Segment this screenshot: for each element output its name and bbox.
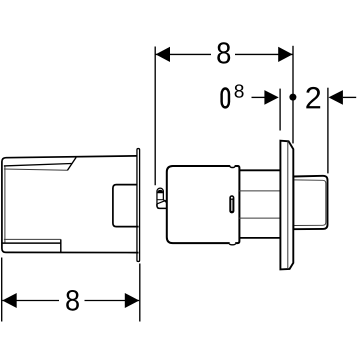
dimension 2: leader stub right xyxy=(343,96,356,98)
dimension bottom 8: dimension line right segment xyxy=(85,300,140,302)
wall flange inner edge line xyxy=(287,141,289,269)
wall flange plate xyxy=(280,141,293,270)
actuator clip capsule xyxy=(157,188,163,206)
actuator clip diagonal xyxy=(157,200,166,204)
shaft bottom line xyxy=(239,237,281,239)
dimension 0.8: leader stub xyxy=(252,96,266,98)
housing bottom seam thin line xyxy=(4,238,61,240)
dimension bottom 8: label 8 xyxy=(66,290,79,311)
actuator clip box line xyxy=(157,199,163,201)
dimension bottom 8: left arrowhead xyxy=(2,293,16,308)
housing lid seam upper line xyxy=(4,164,72,166)
housing outer outline xyxy=(2,156,139,253)
housing flange bar xyxy=(137,149,140,262)
dimension chain dot xyxy=(289,94,296,101)
shaft inner line upper xyxy=(239,190,281,192)
spigot xyxy=(293,176,327,229)
dimension top 8: right arrowhead xyxy=(278,47,292,62)
actuator clip step to body xyxy=(163,200,166,203)
dimension bottom 8: right arrowhead xyxy=(125,293,139,308)
actuator slot inner dot xyxy=(231,197,233,199)
actuator body top notch xyxy=(230,164,236,167)
spigot inner line xyxy=(294,180,326,226)
dimension top 8: extension line right (long, through dot) xyxy=(292,46,294,144)
dimension 0.8: superscript 8 xyxy=(235,84,244,97)
actuator body bottom notch xyxy=(230,242,236,245)
dimension 2: arrowhead pointing left xyxy=(329,90,343,105)
dimension top 8: dimension line left segment xyxy=(155,53,211,55)
actuator clip bottom hook xyxy=(157,204,166,208)
housing lid corner diagonal xyxy=(67,157,76,170)
housing lid seam lower line xyxy=(4,169,68,170)
actuator clip dark cap xyxy=(157,190,163,194)
dimension top 8: left arrowhead xyxy=(156,47,170,62)
actuator body xyxy=(167,166,240,243)
actuator slot inner slit xyxy=(231,200,233,211)
shaft top line xyxy=(239,169,281,171)
actuator slot on right edge xyxy=(229,195,234,213)
shaft inner line lower xyxy=(239,217,281,219)
dimension bottom 8: extension line right xyxy=(139,264,141,322)
housing inner left edge line xyxy=(4,167,6,244)
dimension 0.8: extension line xyxy=(279,89,281,131)
housing bottom seam step xyxy=(60,239,62,252)
dimension top 8: extension line left xyxy=(154,47,156,186)
dimension 2: label 2 xyxy=(306,87,320,109)
housing right side notch xyxy=(113,185,139,227)
housing bottom seam thick line xyxy=(3,242,61,244)
dimension bottom 8: extension line left xyxy=(1,258,3,322)
dimension 0.8: arrowhead pointing right xyxy=(264,90,278,105)
dimension 2: extension line xyxy=(327,88,329,174)
dimension top 8: label 8 xyxy=(217,42,230,63)
dimension bottom 8: dimension line left segment xyxy=(2,300,59,302)
dimension top 8: dimension line right segment xyxy=(235,53,293,55)
dimension 0.8: label 0 xyxy=(220,87,230,108)
